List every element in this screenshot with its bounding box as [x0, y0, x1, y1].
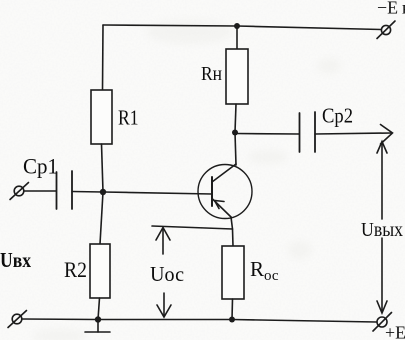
svg-text:Uвх: Uвх [0, 248, 31, 272]
wire R2 bottom to rail [98, 298, 100, 320]
resistor R1 [91, 90, 112, 144]
svg-text:−E: −E [377, 0, 398, 18]
resistor Rn [226, 49, 248, 104]
wire collector node to Cp2 [235, 133, 299, 136]
wire Rn top stub [236, 26, 238, 49]
wire base node to transistor base [103, 192, 212, 194]
node collector [232, 130, 238, 136]
terminal common bottom-left [8, 311, 27, 328]
wire Roc to bottom rail [231, 299, 234, 320]
capacitor Cp2 [300, 112, 316, 152]
arrow Uoc down [157, 293, 171, 317]
wire Rn bottom to collector node [235, 104, 236, 133]
wire emitter vertical [231, 217, 233, 246]
wire top-left vertical [102, 25, 105, 90]
ground [85, 320, 110, 333]
wire bottom rail [22, 319, 377, 322]
svg-text:R2: R2 [64, 257, 87, 282]
arrow Uvyh line up segment [377, 142, 387, 220]
svg-text:Uвых: Uвых [361, 219, 403, 241]
wire base node to R2 [100, 192, 103, 244]
svg-text:+E: +E [385, 323, 405, 340]
node base [100, 189, 106, 195]
wire R1 bottom to base node [102, 144, 104, 192]
resistor Roc [222, 246, 244, 299]
resistor R2 [90, 244, 110, 298]
terminal -Ek [377, 21, 395, 39]
node top rail junction [234, 23, 240, 29]
svg-text:Cр2: Cр2 [322, 104, 353, 128]
arrow Uvyh line down segment [377, 238, 387, 313]
svg-text:Cр1: Cр1 [23, 154, 58, 179]
terminal +E [373, 313, 392, 332]
svg-text:Rн: Rн [201, 63, 222, 85]
capacitor Cp1 [57, 171, 73, 209]
node emitter bottom rail [229, 317, 235, 323]
node bottom rail ground junction [95, 316, 101, 322]
svg-text:R1: R1 [118, 106, 139, 130]
wire top rail [103, 25, 381, 30]
wire Cp1 to base node [72, 191, 103, 194]
terminal input [10, 183, 29, 200]
svg-text:Uос: Uос [150, 262, 184, 286]
wire Cp2 output with right arrow [315, 125, 393, 145]
wire Uoc reference bar [152, 226, 233, 229]
transistor VT1 [198, 164, 252, 219]
arrow Uoc up [156, 228, 170, 255]
wire input terminal to Cp1 [24, 190, 56, 192]
wire collector vertical into transistor [235, 133, 236, 166]
